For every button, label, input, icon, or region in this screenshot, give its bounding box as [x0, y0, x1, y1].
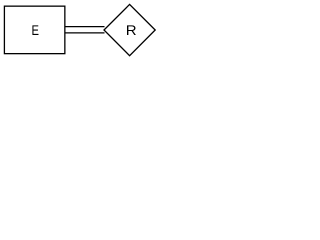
entity rectangle E [4, 6, 64, 54]
relationship diamond R [104, 4, 155, 55]
label R [127, 25, 136, 35]
label E [32, 25, 38, 35]
wire double-line connector [65, 27, 105, 33]
